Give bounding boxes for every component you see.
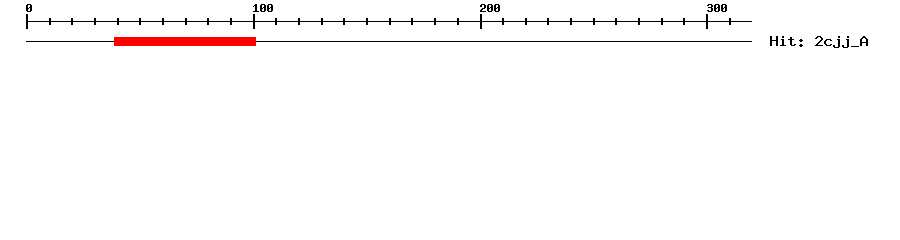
background [0,0,900,60]
text label Hit: 2cjj_A [770,36,868,48]
ruler label 200 [480,4,500,12]
ruler axis line [26,21,752,22]
ruler label 0 [26,4,32,12]
major tick 0 [26,14,28,29]
query sequence line [26,41,752,42]
major tick 100 [253,14,255,29]
ruler label 300 [707,4,727,12]
major tick 300 [706,14,708,29]
ruler label 100 [253,4,273,12]
major tick 200 [480,14,482,29]
red hit alignment bar [114,37,256,46]
minor ticks every 10 residues [49,18,731,25]
sequence hit plot [0,0,900,60]
